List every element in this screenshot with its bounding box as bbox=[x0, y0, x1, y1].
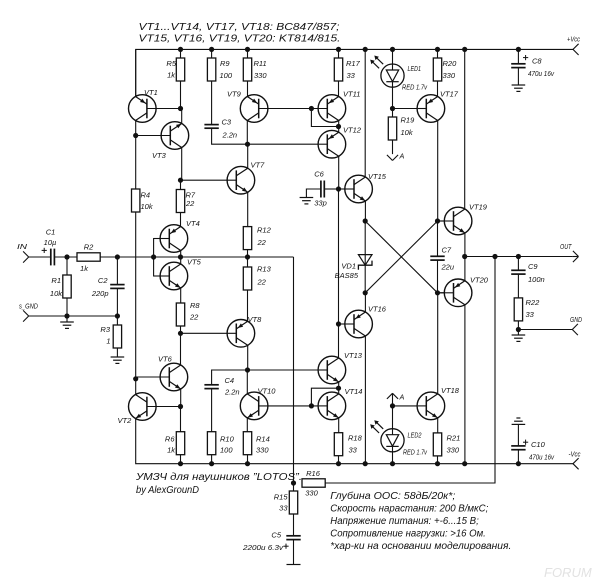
wire C4 to R10 bbox=[211, 389, 213, 432]
svg-text:C8: C8 bbox=[532, 57, 542, 66]
svg-text:IN: IN bbox=[17, 244, 28, 251]
svg-text:R11: R11 bbox=[254, 59, 267, 68]
resistor R17 bbox=[334, 58, 342, 81]
capacitor C10 bbox=[511, 445, 525, 447]
terminal A upper bbox=[387, 393, 393, 399]
node VT3.c-R7-VT7.b bbox=[178, 178, 183, 183]
wire C10 to rail bbox=[517, 450, 519, 464]
svg-text:VT1...VT14, VT17, VT18: BC8: VT1...VT14, VT17, VT18: BC847/857; bbox=[139, 22, 340, 33]
transistor VT9 bbox=[227, 90, 311, 123]
wire rail to C8 bbox=[517, 49, 519, 63]
capacitor C9 bbox=[511, 269, 525, 271]
ground at C6 bbox=[300, 197, 314, 199]
svg-text:R1: R1 bbox=[51, 276, 61, 285]
svg-text:VT4: VT4 bbox=[186, 219, 200, 228]
node rail-VT15 bbox=[363, 47, 368, 52]
node rail-R11 bbox=[245, 47, 250, 52]
node C4-VT8.c-VT10.e-VT13.b bbox=[245, 367, 250, 372]
wire VT16 collector to rail bbox=[364, 336, 366, 464]
node rail-R6 bbox=[178, 461, 183, 466]
svg-text:VD1: VD1 bbox=[341, 262, 356, 271]
wire R21 to rail bbox=[437, 456, 439, 464]
svg-text:R6: R6 bbox=[165, 435, 175, 444]
input terminal IN bbox=[23, 251, 29, 257]
svg-text:C3: C3 bbox=[222, 118, 232, 127]
wire rail to VT15 collector bbox=[364, 49, 366, 178]
wire R2 to C2 node bbox=[100, 256, 117, 258]
svg-text:VT2: VT2 bbox=[118, 416, 133, 425]
svg-text:33p: 33p bbox=[314, 198, 327, 207]
node C3-VT9.c-VT7.c-VT12.b bbox=[245, 142, 250, 147]
svg-text:33: 33 bbox=[526, 310, 535, 319]
wire rail to R11 bbox=[247, 49, 249, 58]
svg-text:C10: C10 bbox=[531, 440, 546, 449]
wire R18 to rail bbox=[338, 456, 340, 464]
transistor VT17 bbox=[417, 90, 459, 123]
node R5-VT1.b-VT3.e bbox=[178, 106, 183, 111]
wire C4 to VT13 base line bbox=[212, 370, 328, 385]
svg-text:VT12: VT12 bbox=[343, 126, 362, 135]
terminal A lower bbox=[387, 155, 393, 161]
wire cross X2 to VT19 base bbox=[365, 221, 437, 293]
svg-text:330: 330 bbox=[443, 71, 456, 80]
svg-text:R12: R12 bbox=[257, 226, 272, 235]
wire VT3 emitter up bbox=[181, 109, 183, 125]
svg-text:УМЗЧ для наушников ”LOTOS”.: УМЗЧ для наушников ”LOTOS”. bbox=[135, 472, 302, 483]
svg-text:Сопротивление нагрузки: >16 Ом: Сопротивление нагрузки: >16 Ом. bbox=[330, 528, 486, 539]
wire R3 to ground bbox=[116, 348, 118, 357]
node LED2-VT18.b bbox=[390, 403, 395, 408]
wire C7 bottom lead bbox=[437, 260, 439, 293]
wire VT5 upper lead to signal bbox=[180, 257, 182, 265]
wire R20 to VT17 collector bbox=[437, 81, 439, 97]
svg-text:VT8: VT8 bbox=[248, 315, 263, 324]
transistor VT2 bbox=[118, 393, 181, 425]
node VT4.c-VT5.c-signal bbox=[178, 254, 183, 259]
wire C5 to ground bbox=[293, 540, 295, 565]
node rail-C8 bbox=[516, 47, 521, 52]
wire LED1 to node I1 bbox=[392, 87, 394, 109]
wire node to VT2 collector bbox=[135, 379, 137, 396]
wire VT19 base lead bbox=[438, 220, 448, 222]
wire GND line bbox=[518, 329, 572, 331]
wire VT18 emitter to R21 bbox=[437, 417, 439, 433]
resistor R4 bbox=[132, 189, 140, 212]
svg-text:330: 330 bbox=[305, 489, 318, 498]
node R8-VT8.b-VT6.e bbox=[178, 331, 183, 336]
wire OUT line bbox=[465, 256, 573, 258]
transistor VT19 bbox=[438, 203, 488, 235]
wire R16 to output feedback bbox=[325, 257, 495, 484]
resistor R20 bbox=[433, 58, 441, 81]
wire VT18 collector up bbox=[437, 293, 439, 395]
wire R12 to signal bbox=[247, 250, 249, 257]
wire C8 to ground bbox=[517, 68, 519, 85]
wire R8 to VT8 base node bbox=[180, 326, 182, 366]
svg-text:R4: R4 bbox=[141, 191, 151, 200]
node X2 VD1-VT16.e bbox=[363, 290, 368, 295]
resistor R18 bbox=[334, 433, 342, 456]
transistor VT15 bbox=[339, 172, 387, 203]
wire R11 to VT9 emitter bbox=[247, 81, 249, 97]
svg-text:LED2: LED2 bbox=[408, 433, 422, 440]
power terminal -Vcc bbox=[573, 458, 579, 464]
node R12-R13-signal bbox=[245, 254, 250, 259]
node LED1-R19-VT17.b bbox=[390, 106, 395, 111]
svg-text:R2: R2 bbox=[84, 243, 94, 252]
svg-text:VT15, VT16, VT19, VT20: KT: VT15, VT16, VT19, VT20: KT814/815. bbox=[139, 34, 341, 45]
svg-text:VT19: VT19 bbox=[469, 203, 488, 212]
node VT19.b-C7-cross bbox=[435, 218, 440, 223]
resistor R5 bbox=[176, 58, 184, 81]
wire down to VT13 collector bbox=[338, 324, 340, 359]
node rail-R9 bbox=[209, 47, 214, 52]
transistor VT11 bbox=[311, 90, 360, 123]
wire rail to VT19 collector bbox=[464, 49, 466, 210]
svg-text:VT13: VT13 bbox=[344, 351, 363, 360]
svg-text:+Vcc: +Vcc bbox=[567, 37, 580, 44]
wire terminal A to node I2 bbox=[392, 393, 394, 406]
wire rail to R5 bbox=[180, 49, 182, 58]
node VT6.c-VT2.b-R6 bbox=[178, 404, 183, 409]
wire R19 to terminal A bbox=[392, 140, 394, 154]
capacitor C1 bbox=[50, 249, 52, 266]
node rail-R5 bbox=[178, 47, 183, 52]
wire VT7 collector up bbox=[247, 144, 249, 169]
svg-text:10k: 10k bbox=[141, 202, 154, 211]
transistor VT10 bbox=[240, 387, 327, 420]
svg-text:R9: R9 bbox=[220, 59, 230, 68]
svg-text:VT20: VT20 bbox=[470, 276, 489, 285]
node rail-VT20 bbox=[462, 461, 467, 466]
node rail-LED1 bbox=[390, 47, 395, 52]
wire R13 to VT8 emitter bbox=[247, 290, 249, 322]
wire R1 top lead bbox=[66, 257, 68, 275]
node signal-bases bbox=[151, 254, 156, 259]
wire VT1 emitter to rail bbox=[135, 49, 137, 97]
node rail-VT19 bbox=[462, 47, 467, 52]
node rail-VT16 bbox=[363, 461, 368, 466]
svg-text:VT6: VT6 bbox=[158, 355, 173, 364]
transistor VT3 bbox=[136, 122, 189, 160]
wire C9 top lead bbox=[517, 257, 519, 271]
svg-text:C1: C1 bbox=[46, 228, 56, 237]
svg-text:1: 1 bbox=[106, 337, 110, 346]
wire signal line to VT4/VT5 bases bbox=[117, 256, 293, 258]
node rail-R14 bbox=[245, 461, 250, 466]
resistor R16 bbox=[302, 479, 325, 487]
capacitor C2 bbox=[110, 284, 124, 286]
node s_GND-R3 bbox=[115, 313, 120, 318]
terminal GND bbox=[572, 324, 578, 330]
wire VT11 base bracket bbox=[311, 109, 338, 127]
ground under C8 bbox=[512, 84, 526, 86]
wire R3 top lead bbox=[116, 316, 118, 325]
wire R22 to GND node bbox=[517, 321, 519, 330]
svg-text:22: 22 bbox=[189, 313, 199, 322]
svg-text:VT3: VT3 bbox=[152, 151, 167, 160]
wire node I2 to LED2 bbox=[392, 406, 394, 429]
transistor VT14 bbox=[318, 387, 362, 420]
resistor R10 bbox=[207, 432, 215, 455]
wire VT7 emitter to R12 bbox=[247, 192, 249, 227]
node feedback R15-R16 bbox=[291, 480, 296, 485]
wire +Vcc top power rail bbox=[136, 49, 573, 96]
svg-text:100: 100 bbox=[220, 446, 233, 455]
resistor R1 bbox=[63, 275, 71, 298]
wire -Vcc bottom power rail bbox=[136, 418, 573, 464]
transistor VT18 bbox=[417, 386, 460, 420]
svg-text:C5: C5 bbox=[271, 531, 281, 540]
node rail-R21 bbox=[435, 461, 440, 466]
wire VT20 emitter up bbox=[464, 257, 466, 282]
power terminal +Vcc bbox=[573, 44, 579, 50]
wire R1 bottom lead bbox=[66, 298, 68, 316]
wire VT14 emitter to R18 bbox=[338, 417, 340, 432]
wire node D1 to VT12 base bbox=[248, 143, 328, 145]
svg-text:22: 22 bbox=[257, 238, 267, 247]
svg-text:C6: C6 bbox=[314, 170, 324, 179]
wire R17 to VT11 emitter bbox=[338, 81, 340, 97]
wire VT8 collector to node D2 bbox=[247, 345, 249, 370]
wire R15 top lead bbox=[293, 483, 295, 491]
wire signal to feedback tap bbox=[293, 257, 295, 483]
wire C6 to ground bbox=[306, 189, 321, 198]
diode VD1 BAS85 (schottky) bbox=[358, 255, 372, 266]
svg-text:10k: 10k bbox=[50, 289, 63, 298]
wire node to R7 bbox=[180, 180, 182, 189]
wire s_GND line bbox=[29, 315, 118, 317]
capacitor C4 bbox=[204, 384, 218, 386]
svg-text:33: 33 bbox=[349, 446, 358, 455]
svg-text:R16: R16 bbox=[306, 469, 321, 478]
transistor VT8 bbox=[181, 315, 263, 347]
svg-text:470u 16v: 470u 16v bbox=[528, 69, 555, 78]
wire rail to R9 bbox=[211, 49, 213, 58]
ground above C10 bbox=[512, 423, 526, 425]
capacitor C3 bbox=[204, 124, 218, 126]
svg-text:VT10: VT10 bbox=[258, 387, 277, 396]
wire cross X1 to VT20 base bbox=[365, 221, 437, 293]
wire VT9 collector to node D1 bbox=[246, 120, 248, 144]
svg-text:VT14: VT14 bbox=[345, 387, 363, 396]
node X1 VT15.e-VD1 bbox=[363, 218, 368, 223]
ground under R3 bbox=[111, 356, 125, 358]
node OUT-feedback bbox=[492, 254, 497, 259]
wire R10 to rail bbox=[211, 455, 213, 464]
node OUT junction bbox=[462, 254, 467, 259]
svg-text:RED 1.7v: RED 1.7v bbox=[403, 450, 427, 457]
wire VT20 base lead bbox=[438, 292, 448, 294]
wire ground to C10 bbox=[517, 424, 519, 446]
svg-text:VT16: VT16 bbox=[368, 305, 387, 314]
node rail-LED2 bbox=[390, 461, 395, 466]
svg-text:R8: R8 bbox=[190, 301, 200, 310]
node R2-C2 bbox=[115, 254, 120, 259]
node rail-R17 bbox=[336, 47, 341, 52]
transistor VT13 bbox=[318, 351, 363, 384]
svg-text:LED1: LED1 bbox=[408, 66, 422, 73]
wire VT15 emitter to node X1 bbox=[364, 200, 366, 221]
wire node B2 to R6 bbox=[180, 407, 182, 432]
node C6-VT15.b bbox=[336, 186, 341, 191]
resistor R2 bbox=[77, 253, 100, 261]
svg-text:FORUM: FORUM bbox=[544, 565, 592, 580]
svg-text:VT7: VT7 bbox=[251, 161, 266, 170]
wire VT4 lower lead to signal bbox=[180, 250, 182, 257]
resistor R14 bbox=[243, 432, 251, 455]
wire R4 to VT6 base node bbox=[135, 212, 137, 379]
wire VT14 collector up bbox=[338, 388, 340, 395]
resistor R8 bbox=[176, 303, 184, 326]
svg-text:BAS85: BAS85 bbox=[335, 271, 359, 280]
ground under R1 bbox=[66, 316, 68, 322]
resistor R3 bbox=[113, 325, 121, 348]
wire R15 to C5 bbox=[293, 514, 295, 536]
resistor R15 bbox=[289, 491, 297, 514]
wire VT12 collector down bbox=[338, 156, 340, 190]
wire C2 bottom lead bbox=[116, 288, 118, 316]
wire VD1 anode lead bbox=[364, 221, 366, 293]
svg-text:330: 330 bbox=[447, 446, 460, 455]
resistor R21 bbox=[433, 433, 441, 456]
resistor R11 bbox=[243, 58, 251, 81]
node R4-VT6.b-VT2.c bbox=[133, 376, 138, 381]
node VT13.e-VT14.c bbox=[336, 386, 341, 391]
node VT11.c-VT12.e bbox=[336, 124, 341, 129]
svg-text:2.2n: 2.2n bbox=[222, 131, 238, 140]
wire C3 to node D1 bbox=[212, 128, 248, 144]
wire VT4-VT5 base tie bbox=[154, 239, 170, 277]
svg-text:R17: R17 bbox=[346, 59, 361, 68]
svg-text:R13: R13 bbox=[257, 265, 272, 274]
svg-text:10k: 10k bbox=[401, 128, 414, 137]
node VT9.b-VT11.b bbox=[309, 106, 314, 111]
svg-text:22: 22 bbox=[257, 278, 267, 287]
node input-R1 bbox=[64, 254, 69, 259]
svg-text:C7: C7 bbox=[442, 246, 452, 255]
node VT16 base node bbox=[336, 321, 341, 326]
led LED1 bbox=[381, 64, 404, 87]
wire C2 top lead bbox=[116, 257, 118, 285]
svg-text:GND: GND bbox=[570, 317, 582, 324]
wire VT14 base bracket bbox=[311, 388, 338, 406]
svg-text:330: 330 bbox=[256, 446, 269, 455]
resistor R22 bbox=[514, 298, 522, 321]
svg-text:R14: R14 bbox=[256, 435, 270, 444]
svg-text:C9: C9 bbox=[528, 262, 538, 271]
wire C1 to R2 bbox=[54, 256, 77, 258]
transistor VT20 bbox=[438, 276, 489, 307]
wire R9 to C3 bbox=[211, 81, 213, 125]
wire VT10 collector to R14 bbox=[246, 417, 248, 432]
wire VT10 emitter up bbox=[246, 370, 248, 395]
svg-text:RED 1.7v: RED 1.7v bbox=[402, 85, 427, 92]
svg-text:R22: R22 bbox=[526, 298, 541, 307]
wire VT1 collector to node A1 bbox=[135, 120, 137, 136]
led LED2 bbox=[381, 429, 404, 452]
svg-text:R20: R20 bbox=[443, 59, 458, 68]
svg-text:R3: R3 bbox=[100, 325, 110, 334]
wire VT3 collector down bbox=[181, 147, 183, 181]
svg-text:R19: R19 bbox=[401, 116, 416, 125]
svg-text:C4: C4 bbox=[225, 376, 235, 385]
node OUT-C9 bbox=[516, 254, 521, 259]
svg-text:by AlexGrounD: by AlexGrounD bbox=[136, 485, 199, 496]
transistor VT16 bbox=[339, 305, 387, 338]
wire signal to R13 bbox=[247, 257, 249, 267]
svg-text:R5: R5 bbox=[166, 59, 176, 68]
ground under R22 bbox=[517, 330, 519, 336]
svg-text:A: A bbox=[399, 393, 405, 402]
wire VT20 collector to rail bbox=[464, 304, 466, 464]
svg-text:OUT: OUT bbox=[560, 244, 572, 251]
svg-text:330: 330 bbox=[254, 71, 267, 80]
node rail-R20 bbox=[435, 47, 440, 52]
svg-text:33: 33 bbox=[347, 71, 356, 80]
wire node A1 to R4 bbox=[135, 136, 137, 190]
svg-text:VT11: VT11 bbox=[343, 90, 360, 99]
svg-text:VT18: VT18 bbox=[441, 386, 460, 395]
svg-text:2.2n: 2.2n bbox=[224, 388, 240, 397]
wire R5 to node B1 bbox=[180, 81, 182, 109]
wire VT17 base lead bbox=[393, 108, 427, 110]
svg-text:*хар-ки на основании моделиров: *хар-ки на основании моделирования. bbox=[330, 541, 511, 552]
svg-text:Напряжение питания: +-6...15 В: Напряжение питания: +-6...15 В; bbox=[330, 516, 479, 527]
node VT10.b-VT14.b bbox=[309, 403, 314, 408]
svg-text:R18: R18 bbox=[348, 434, 363, 443]
terminal s_GND bbox=[23, 310, 29, 316]
wire rail to LED1 bbox=[392, 49, 394, 64]
wire IN to C1 bbox=[29, 256, 51, 258]
node rail-R10 bbox=[209, 461, 214, 466]
capacitor C7 bbox=[430, 255, 444, 257]
svg-text:2200u 6.3v: 2200u 6.3v bbox=[242, 543, 284, 552]
wire R14 to rail bbox=[247, 455, 249, 464]
transistor VT4 bbox=[154, 219, 200, 252]
node rail-C10 bbox=[516, 461, 521, 466]
transistor VT12 bbox=[318, 126, 362, 159]
svg-text:VT9: VT9 bbox=[227, 90, 242, 99]
svg-text:-Vcc: -Vcc bbox=[569, 452, 581, 459]
svg-text:33: 33 bbox=[279, 504, 288, 513]
svg-text:R10: R10 bbox=[220, 435, 235, 444]
svg-text:100n: 100n bbox=[528, 275, 545, 284]
wire VT12.c to VT16 base node bbox=[338, 189, 340, 324]
svg-text:1k: 1k bbox=[80, 264, 89, 273]
node rail-R18 bbox=[336, 461, 341, 466]
svg-text:100: 100 bbox=[220, 71, 233, 80]
svg-text:s_GND: s_GND bbox=[19, 304, 38, 311]
svg-text:470u 16v: 470u 16v bbox=[529, 453, 555, 462]
wire rail to R20 bbox=[437, 49, 439, 58]
svg-text:220p: 220p bbox=[91, 289, 109, 298]
wire R7 to VT4 emitter bbox=[180, 213, 182, 228]
ground under C5 bbox=[287, 564, 301, 566]
transistor VT7 bbox=[181, 161, 266, 195]
svg-text:Глубина ООС: 58дБ/20к*;: Глубина ООС: 58дБ/20к*; bbox=[330, 491, 455, 502]
wire C6 right plate to node bbox=[324, 188, 338, 190]
svg-text:VT1: VT1 bbox=[144, 88, 158, 97]
svg-text:1k: 1k bbox=[167, 446, 176, 455]
wire VT16 emitter up bbox=[364, 293, 366, 312]
svg-text:1k: 1k bbox=[167, 71, 176, 80]
svg-text:22u: 22u bbox=[441, 263, 455, 272]
svg-text:22: 22 bbox=[185, 199, 195, 208]
svg-text:R21: R21 bbox=[447, 434, 461, 443]
resistor R12 bbox=[243, 227, 251, 250]
svg-text:10µ: 10µ bbox=[44, 238, 57, 247]
